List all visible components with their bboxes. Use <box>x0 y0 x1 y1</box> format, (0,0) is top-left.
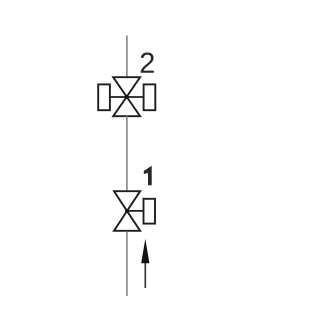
wire: pipe between valves <box>126 116 128 191</box>
flow direction arrow head <box>141 239 149 263</box>
node: V2 center junction dot <box>125 95 129 99</box>
wire: V2 horizontal stem through center <box>110 96 144 98</box>
valve V2 right gland rectangle <box>144 84 156 110</box>
node: V1 center junction dot <box>125 209 129 213</box>
label 2 <box>141 53 154 73</box>
valve V2 left gland rectangle <box>98 84 110 110</box>
wire: inlet pipe top segment <box>126 36 128 78</box>
wire: outlet pipe bottom segment <box>126 231 128 296</box>
valve V1 body (bowtie valve) <box>114 191 140 231</box>
valve V2 body (three-way valve bowtie) <box>113 77 140 116</box>
wire: V1 horizontal stem to gland <box>127 210 144 212</box>
label 1 <box>144 166 152 186</box>
flow direction arrow shaft <box>144 262 146 288</box>
valve V1 gland rectangle <box>144 199 156 224</box>
